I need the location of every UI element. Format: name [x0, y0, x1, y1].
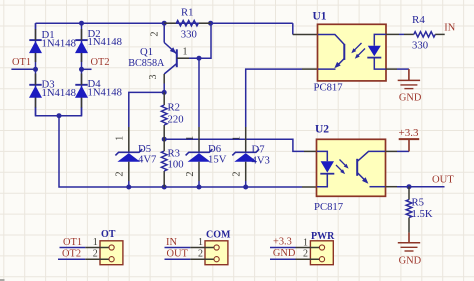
node Q1 collector / R2 / D5 junction [162, 90, 167, 95]
node Q1 base / D6 junction [197, 56, 202, 61]
resistor R4 [414, 32, 435, 37]
svg-text:1: 1 [232, 136, 243, 141]
zener diode D6 [198, 127, 200, 152]
svg-text:U2: U2 [315, 124, 329, 136]
wire U1 pin3 to D7 [246, 69, 302, 127]
node top-rail / R1 right junction [208, 21, 213, 26]
wire U2 pin3 to OUT [386, 186, 398, 188]
connector P3 PWR [310, 241, 333, 265]
wire COM pin1 [165, 247, 191, 249]
svg-text:BC858A: BC858A [128, 58, 165, 69]
svg-text:OUT: OUT [167, 248, 189, 259]
node top-rail / bridge right column junction [79, 21, 84, 26]
corner artifact [0, 279, 5, 281]
svg-text:2: 2 [115, 172, 126, 177]
svg-text:IN: IN [444, 23, 455, 34]
wire U1 pin2 to GND [386, 68, 397, 70]
wire U2 pin4 to +3.3 [386, 150, 398, 152]
svg-text:GND: GND [399, 255, 422, 266]
power +3.3 [399, 138, 420, 140]
wire bridge left column [35, 23, 37, 69]
svg-text:4V7: 4V7 [138, 154, 157, 166]
transistor inside U1 [318, 35, 344, 45]
wire U2 pin1 stub [304, 150, 317, 152]
resistor R2 [163, 92, 165, 105]
connector P1 OT [100, 241, 123, 265]
wire R1 right to Q1 base line [177, 23, 211, 58]
LED inside U1 [374, 34, 386, 45]
wire bridge bottom rail [36, 107, 82, 116]
svg-text:1.5K: 1.5K [412, 208, 433, 220]
wire PWR pin1 [270, 247, 296, 249]
svg-text:2: 2 [185, 172, 196, 177]
svg-text:2: 2 [93, 249, 98, 260]
light arrows U1 [353, 43, 362, 52]
svg-text:PC817: PC817 [314, 201, 344, 213]
svg-text:1N4148: 1N4148 [88, 36, 122, 48]
wire OT2 stub [82, 68, 92, 70]
transistor inside U2 [357, 151, 385, 161]
pin 2 of PWR [296, 258, 320, 260]
wire OT pin2 [58, 258, 85, 260]
ground GND at U1 [398, 79, 420, 81]
wire bridge bottom to ground rail [59, 116, 302, 187]
svg-text:OT1: OT1 [63, 237, 82, 248]
svg-text:1: 1 [185, 136, 196, 141]
svg-text:R4: R4 [412, 14, 425, 26]
wire bridge right column [81, 23, 83, 69]
resistor R5 [408, 187, 410, 200]
svg-text:R1: R1 [181, 7, 193, 19]
wire U1 pin4 stub [293, 34, 318, 36]
svg-text:3: 3 [148, 75, 159, 80]
svg-text:OT2: OT2 [91, 57, 110, 68]
svg-text:OT2: OT2 [62, 249, 81, 260]
svg-text:1: 1 [93, 237, 98, 248]
wire OT1 stub [11, 68, 35, 70]
node OUT / R5 junction [407, 184, 412, 189]
pin 2 of OT [85, 258, 109, 260]
wire R5 to GND [408, 233, 410, 243]
wire D6 column [198, 58, 200, 127]
wire OT pin1 [60, 247, 86, 249]
pin 1 of PWR [296, 247, 320, 249]
node OT1 junction [33, 67, 38, 72]
diode D1 [29, 39, 41, 41]
node R2 / R3 / zener-top junction [162, 137, 167, 142]
op-amp U1 PC817 box [318, 24, 387, 81]
svg-text:PWR: PWR [311, 231, 335, 242]
ground GND at R5 [398, 242, 420, 244]
wire COM pin2 [165, 258, 191, 260]
svg-text:2: 2 [150, 32, 161, 37]
svg-text:4V3: 4V3 [252, 154, 270, 166]
wire PWR pin2 [270, 258, 296, 260]
svg-text:15V: 15V [208, 153, 227, 165]
svg-text:OUT: OUT [432, 174, 454, 185]
light arrows U2 [340, 160, 347, 167]
svg-text:2: 2 [198, 249, 203, 260]
zener diode D5 [128, 127, 130, 152]
wire top rail [36, 22, 293, 24]
wire U2 pin2 stub [302, 186, 317, 188]
transistor Q1 [163, 23, 165, 42]
op-amp U2 PC817 box [317, 139, 386, 196]
svg-text:IN: IN [166, 237, 177, 248]
svg-text:100: 100 [168, 159, 184, 171]
svg-text:1N4148: 1N4148 [88, 87, 122, 99]
svg-text:+3.3: +3.3 [273, 236, 292, 247]
svg-text:2: 2 [232, 172, 243, 177]
svg-text:1: 1 [115, 136, 126, 141]
wire R2-R3 mid junction to U2 pin1 [164, 139, 304, 151]
diode D3 [29, 84, 41, 86]
svg-text:+3.3: +3.3 [399, 127, 419, 139]
pin 1 of COM [190, 247, 214, 249]
svg-text:Q1: Q1 [140, 46, 153, 58]
svg-text:220: 220 [168, 114, 184, 126]
diode D4 [75, 84, 87, 86]
wire R4 to IN [435, 33, 445, 35]
svg-text:PC817: PC817 [314, 82, 344, 94]
pin 1 of OT [85, 247, 109, 249]
svg-text:U1: U1 [313, 11, 327, 23]
wire U1 pin1 to R4 [386, 33, 399, 35]
node ground rail / D5 [126, 185, 131, 190]
svg-text:1N4148: 1N4148 [42, 38, 76, 50]
svg-text:1: 1 [303, 237, 308, 248]
svg-text:330: 330 [412, 39, 428, 51]
node ground rail / D6 [197, 185, 202, 190]
node ground rail / D7 [243, 185, 248, 190]
connector P2 COM [205, 241, 228, 265]
svg-text:330: 330 [181, 28, 197, 40]
svg-text:GND: GND [399, 93, 422, 104]
node bridge bottom junction [57, 113, 62, 118]
svg-text:COM: COM [206, 229, 231, 240]
node ground rail / R3 [162, 185, 167, 190]
svg-text:2: 2 [303, 249, 308, 260]
svg-text:OT: OT [101, 229, 116, 240]
resistor R1 [164, 22, 176, 24]
resistor R3 [163, 139, 165, 151]
svg-text:1: 1 [183, 47, 188, 58]
svg-text:GND: GND [273, 248, 296, 259]
zener diode D7 [245, 127, 247, 152]
svg-text:1: 1 [198, 237, 203, 248]
diode D2 [75, 39, 87, 41]
svg-text:OT1: OT1 [12, 57, 31, 68]
node top-rail / Q1 emitter junction [162, 21, 167, 26]
wire U1 pin3 stub [302, 68, 318, 70]
LED inside U2 [317, 151, 327, 161]
pin 2 of COM [190, 258, 214, 260]
svg-text:1N4148: 1N4148 [42, 87, 76, 99]
svg-text:R5: R5 [412, 197, 424, 209]
wire Q1 collector junction to D5 [129, 92, 164, 127]
node OT2 junction [79, 67, 84, 72]
svg-text:R2: R2 [168, 102, 180, 114]
